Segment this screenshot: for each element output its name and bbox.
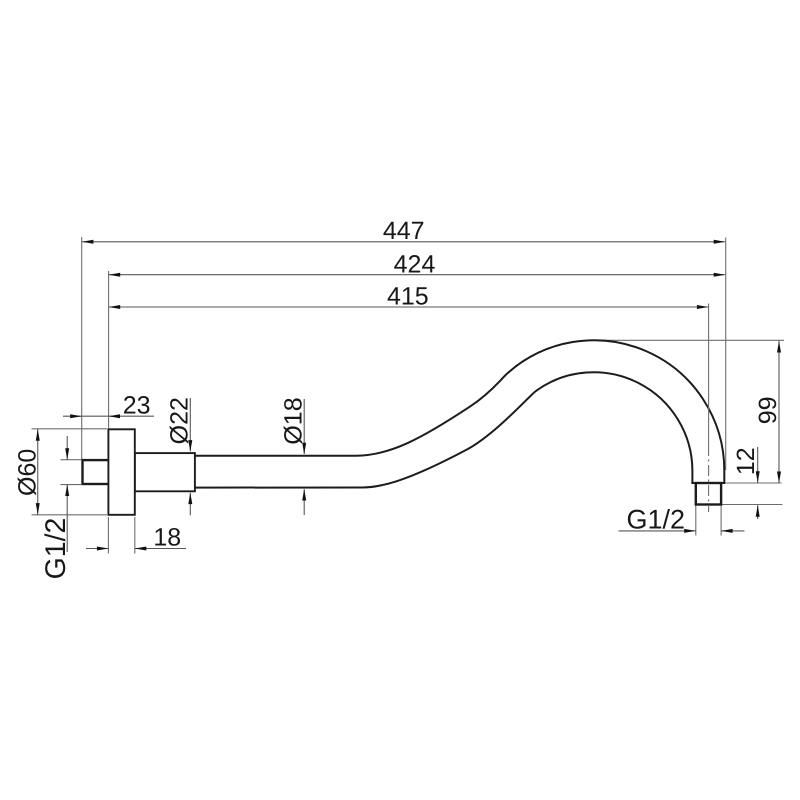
svg-text:12: 12 [732, 447, 760, 475]
svg-text:Ø60: Ø60 [13, 449, 41, 496]
dimension 424 [109, 274, 725, 276]
shower arm tube upper/outer outline [190, 340, 724, 483]
wall-side G1/2 threaded nipple [83, 460, 110, 484]
extension line y=428.8 flange top [32, 428, 108, 430]
dimension diameter 18 [303, 399, 305, 454]
wall cylinder diameter 22 [135, 453, 195, 491]
outlet G1/2 threaded nipple [696, 483, 721, 505]
outlet centreline dash-dot [708, 445, 710, 512]
shower arm tube body (white fill) [190, 340, 724, 487]
svg-text:18: 18 [153, 523, 181, 551]
svg-text:415: 415 [387, 283, 429, 311]
extension line x=695.8 outlet nipple left [695, 505, 697, 536]
extension line x=81.7 (447 + G1/2 wall reference) [81, 237, 83, 459]
svg-text:Ø22: Ø22 [166, 397, 194, 444]
extension line y=504.5 outlet nipple bottom [722, 504, 782, 506]
outlet tube end cap [691, 482, 725, 484]
extension line x=708.6 outlet centreline (415 reference) [708, 304, 710, 446]
dimension diameter 60 [37, 429, 39, 515]
extension line x=134.8 flange right (18 ref) [134, 517, 136, 554]
dimension diameter 22 [189, 398, 191, 451]
svg-text:Ø18: Ø18 [279, 397, 307, 444]
extension line y=483 outlet tube end [725, 482, 781, 484]
extension line y=484.6 wall nipple bottom [61, 484, 82, 486]
extension line x=108.6 (424 / 415 / 23 reference) [108, 271, 110, 428]
svg-text:424: 424 [394, 250, 436, 278]
svg-text:447: 447 [383, 217, 425, 245]
svg-text:G1/2: G1/2 [40, 518, 72, 580]
shower arm tube lower/inner outline [190, 372, 692, 487]
dimension 99 [778, 341, 780, 483]
svg-text:99: 99 [754, 396, 782, 424]
dimension 12 [757, 447, 759, 483]
extension line y=340.3 arch top [594, 339, 784, 341]
dimension G1/2 outlet [619, 530, 696, 532]
dimension 18 [86, 548, 108, 550]
wall flange diameter 60 [108, 429, 134, 515]
extension line x=725.7 outlet right edge [725, 238, 727, 471]
dimension 23 [63, 415, 154, 417]
dimension G1/2 wall side [66, 436, 68, 460]
dimension 447 [82, 241, 725, 243]
dimension 415 [109, 306, 709, 308]
extension line y=459.7 wall nipple top [61, 459, 82, 461]
extension line x=721.1 outlet nipple right [720, 505, 722, 536]
svg-text:23: 23 [123, 392, 151, 420]
extension line x=108.4 flange left (18 ref) [107, 517, 109, 554]
extension line y=514.8 flange bottom [32, 514, 108, 516]
svg-text:G1/2: G1/2 [627, 505, 686, 535]
